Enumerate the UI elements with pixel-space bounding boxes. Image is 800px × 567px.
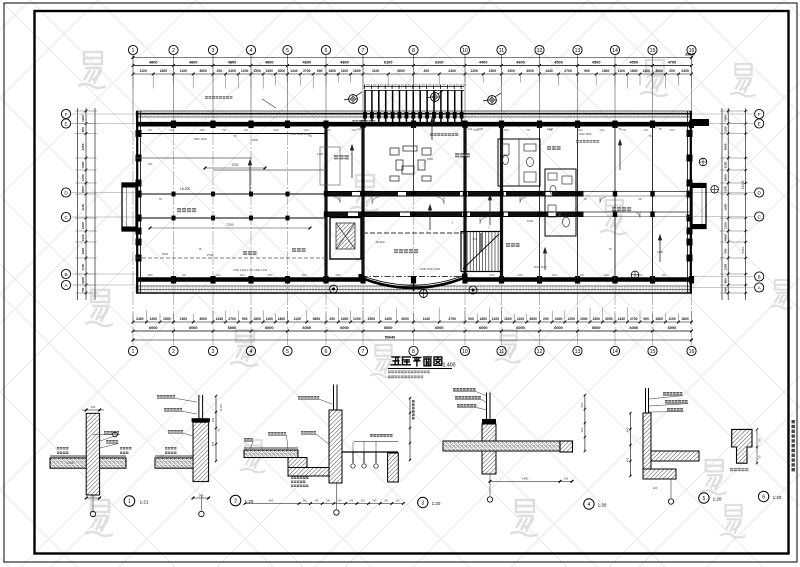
svg-text:1100: 1100 xyxy=(372,69,379,73)
right bay window xyxy=(692,184,706,229)
svg-text:6000: 6000 xyxy=(384,326,392,330)
svg-text:1200: 1200 xyxy=(81,115,85,122)
top exterior wall band with windows xyxy=(136,111,692,124)
svg-text:7: 7 xyxy=(362,48,365,54)
scattered interior dimension texts xyxy=(158,127,662,272)
svg-text:1560: 1560 xyxy=(325,129,331,132)
svg-text:1500: 1500 xyxy=(368,317,376,321)
extra interior texts xyxy=(148,127,664,257)
svg-text:750: 750 xyxy=(622,129,627,132)
svg-text:1100: 1100 xyxy=(81,204,85,211)
svg-text:3000: 3000 xyxy=(526,69,534,73)
detail 3 labels xyxy=(298,396,319,399)
svg-text:50640: 50640 xyxy=(385,336,396,340)
svg-text:1100: 1100 xyxy=(293,317,300,321)
svg-text:900: 900 xyxy=(580,274,585,277)
svg-text:2400: 2400 xyxy=(341,317,349,321)
svg-text:200: 200 xyxy=(216,69,222,73)
svg-text:1440: 1440 xyxy=(303,129,309,132)
detail 2 right dim line xyxy=(215,396,217,461)
svg-text:18.200: 18.200 xyxy=(375,240,385,244)
svg-text:4800: 4800 xyxy=(228,61,236,65)
svg-text:2450: 2450 xyxy=(81,143,85,150)
svg-text:1150: 1150 xyxy=(81,264,85,271)
detail 3 railing xyxy=(342,442,398,464)
svg-text:750: 750 xyxy=(548,129,553,132)
svg-text:7: 7 xyxy=(362,349,365,355)
detail 4 designation xyxy=(584,499,594,509)
detail 3: roof edge with railing xyxy=(244,385,342,484)
interior vertical walls center block xyxy=(324,127,327,280)
svg-text:240: 240 xyxy=(468,127,473,131)
svg-text:1200: 1200 xyxy=(169,129,175,132)
svg-text:7200: 7200 xyxy=(724,115,728,122)
svg-text:1100: 1100 xyxy=(668,317,675,321)
svg-text:1500: 1500 xyxy=(489,69,497,73)
svg-text:1300: 1300 xyxy=(384,317,392,321)
svg-text:7200: 7200 xyxy=(226,223,233,227)
detail 1 top dim xyxy=(85,409,88,412)
svg-text:6: 6 xyxy=(325,48,328,54)
svg-text:1: 1 xyxy=(132,48,135,54)
svg-text:6100: 6100 xyxy=(384,61,392,65)
svg-text:2400: 2400 xyxy=(448,69,456,73)
left bay window xyxy=(122,183,136,231)
svg-text:2400: 2400 xyxy=(681,69,689,73)
bathroom cluster B xyxy=(545,169,576,236)
svg-text:60: 60 xyxy=(758,438,762,442)
svg-text:4500: 4500 xyxy=(554,61,562,65)
main vertical grid lines through plan xyxy=(133,111,692,345)
svg-text:3600: 3600 xyxy=(397,69,405,73)
svg-text:2700: 2700 xyxy=(303,69,311,73)
detail 5: gutter section xyxy=(643,388,699,479)
svg-text:600: 600 xyxy=(580,402,584,407)
svg-text:1100: 1100 xyxy=(618,69,625,73)
svg-text:3000: 3000 xyxy=(278,69,286,73)
room label huiketing right xyxy=(455,153,470,157)
svg-text:2700: 2700 xyxy=(564,69,572,73)
svg-text:6000: 6000 xyxy=(479,326,487,330)
svg-text:1440: 1440 xyxy=(637,274,643,277)
svg-text:1300: 1300 xyxy=(180,317,188,321)
svg-text:10: 10 xyxy=(462,48,468,54)
svg-text:240: 240 xyxy=(358,127,363,131)
svg-text:1150: 1150 xyxy=(724,126,728,133)
detail 4 right dim xyxy=(584,395,586,451)
svg-text:12: 12 xyxy=(537,349,543,355)
svg-text:1100: 1100 xyxy=(517,317,524,321)
svg-text:E: E xyxy=(758,121,761,126)
detail 5 left dim xyxy=(629,413,631,476)
svg-text:14: 14 xyxy=(612,349,618,355)
svg-text:1440: 1440 xyxy=(423,317,431,321)
bottom center curved canopy xyxy=(359,274,468,292)
svg-text:700: 700 xyxy=(81,287,85,292)
door swing arcs xyxy=(334,197,640,224)
canopy end markers xyxy=(330,285,338,293)
svg-text:3000: 3000 xyxy=(199,317,207,321)
svg-text:6000: 6000 xyxy=(265,326,273,330)
svg-text:1440: 1440 xyxy=(599,129,605,132)
svg-text:1100: 1100 xyxy=(643,69,650,73)
detail 4 pipe labels xyxy=(453,388,476,391)
svg-text:2400: 2400 xyxy=(228,69,236,73)
svg-text:1800 1500 1800: 1800 1500 1800 xyxy=(420,267,441,271)
svg-text:1800: 1800 xyxy=(630,69,638,73)
svg-text:18.200: 18.200 xyxy=(220,404,223,412)
svg-text:6000: 6000 xyxy=(149,326,157,330)
entrance porch colonnade xyxy=(363,85,467,125)
svg-text:1300: 1300 xyxy=(507,69,515,73)
internal leader texts xyxy=(205,96,232,99)
svg-text:2200: 2200 xyxy=(231,163,238,167)
left dimension lines xyxy=(77,108,79,300)
svg-text:1200: 1200 xyxy=(567,317,575,321)
svg-text:78: 78 xyxy=(158,132,162,136)
svg-text:950: 950 xyxy=(724,278,728,283)
svg-text:1600: 1600 xyxy=(81,247,85,254)
svg-text:1560: 1560 xyxy=(503,129,509,132)
svg-text:1150: 1150 xyxy=(724,222,728,229)
right callout markers xyxy=(699,158,707,166)
svg-text:4400: 4400 xyxy=(724,234,728,241)
bottom grid bubbles xyxy=(128,346,696,355)
internal dimensions left roof xyxy=(150,168,310,228)
svg-text:15: 15 xyxy=(650,48,656,54)
svg-text:4600: 4600 xyxy=(516,61,524,65)
detail 2 designation xyxy=(230,495,241,506)
svg-text:1:21: 1:21 xyxy=(140,500,149,505)
svg-text:120: 120 xyxy=(653,486,658,490)
svg-text:700: 700 xyxy=(724,248,728,253)
svg-text:1560: 1560 xyxy=(199,129,205,132)
svg-text:1600: 1600 xyxy=(724,203,728,210)
svg-text:900: 900 xyxy=(242,317,248,321)
detail 5 pipe labels xyxy=(663,392,682,395)
svg-text:1200: 1200 xyxy=(517,274,523,277)
svg-text:4800: 4800 xyxy=(265,61,273,65)
svg-text:1100: 1100 xyxy=(724,186,728,193)
svg-text:B: B xyxy=(758,274,761,279)
svg-text:1:400: 1:400 xyxy=(443,363,456,369)
svg-text:1300: 1300 xyxy=(592,317,600,321)
elevator shaft xyxy=(330,218,361,260)
svg-text:5410: 5410 xyxy=(741,246,745,253)
svg-text:14: 14 xyxy=(612,48,618,54)
interior vertical partitions right section xyxy=(540,127,653,280)
svg-text:5: 5 xyxy=(286,349,289,355)
svg-text:1100: 1100 xyxy=(317,152,323,156)
top dim extension verticals xyxy=(133,54,692,74)
svg-text:B: B xyxy=(64,272,67,277)
svg-text:4500: 4500 xyxy=(592,61,600,65)
detail 3 corner block xyxy=(388,453,399,482)
svg-text:1100: 1100 xyxy=(266,317,273,321)
detail 1 ref circle leader xyxy=(93,434,112,436)
svg-text:↑: ↑ xyxy=(488,225,491,231)
svg-text:4400: 4400 xyxy=(81,277,85,284)
detail 6: coping cap section xyxy=(732,429,752,463)
svg-text:1100: 1100 xyxy=(492,317,499,321)
svg-text:900: 900 xyxy=(211,417,215,422)
svg-text:50: 50 xyxy=(758,455,762,459)
staircase xyxy=(461,232,501,272)
svg-text:3600: 3600 xyxy=(529,317,537,321)
svg-text:1200: 1200 xyxy=(353,317,361,321)
svg-text:4400: 4400 xyxy=(479,61,487,65)
svg-text:1440: 1440 xyxy=(290,69,298,73)
svg-text:78: 78 xyxy=(158,197,162,201)
svg-text:1100: 1100 xyxy=(81,234,85,241)
detail 4: balcony slab section xyxy=(443,393,573,475)
svg-text:6200: 6200 xyxy=(435,61,443,65)
svg-text:3600: 3600 xyxy=(313,317,321,321)
watermark glyphs xyxy=(78,52,106,88)
top wall column blobs xyxy=(171,121,694,129)
svg-text:1200: 1200 xyxy=(470,69,478,73)
svg-text:1:20: 1:20 xyxy=(773,495,782,500)
interior direction arrows xyxy=(0,0,1,1)
top grid bubbles and leaders xyxy=(128,45,696,111)
svg-text:78: 78 xyxy=(658,127,662,131)
svg-text:2400: 2400 xyxy=(136,317,144,321)
svg-text:2700: 2700 xyxy=(630,317,638,321)
svg-text:3500: 3500 xyxy=(724,143,728,150)
room label shuixiang xyxy=(292,248,306,252)
svg-text:10: 10 xyxy=(462,349,468,355)
svg-text:900: 900 xyxy=(182,274,187,277)
detail 2 pipe labels xyxy=(157,395,175,398)
svg-text:1460 1440 1760 1300 1440: 1460 1440 1760 1300 1440 xyxy=(233,268,268,272)
svg-text:1800: 1800 xyxy=(681,317,689,321)
bottom exterior wall band with windows xyxy=(136,280,692,294)
svg-text:13: 13 xyxy=(575,48,581,54)
svg-text:1800: 1800 xyxy=(655,317,663,321)
svg-text:1800: 1800 xyxy=(278,317,286,321)
room label roof left xyxy=(177,208,196,212)
svg-text:750: 750 xyxy=(222,129,227,132)
svg-text:1500: 1500 xyxy=(253,69,261,73)
svg-text:4800: 4800 xyxy=(303,61,311,65)
detail 4 bottom xyxy=(489,474,491,496)
svg-text:450: 450 xyxy=(626,427,630,432)
svg-text:200: 200 xyxy=(329,317,335,321)
svg-text:13: 13 xyxy=(575,349,581,355)
svg-text:1300: 1300 xyxy=(265,69,273,73)
svg-text:1500: 1500 xyxy=(580,317,588,321)
detail 3 bottom dim xyxy=(245,503,403,505)
svg-text:1440 1560: 1440 1560 xyxy=(578,132,592,136)
svg-text:1500: 1500 xyxy=(527,219,534,223)
svg-text:1:20: 1:20 xyxy=(713,497,722,502)
svg-text:2700: 2700 xyxy=(228,317,236,321)
svg-text:3600: 3600 xyxy=(199,69,207,73)
svg-text:6000: 6000 xyxy=(516,326,524,330)
svg-text:1100: 1100 xyxy=(139,69,146,73)
top dimension line row 2 (subdivisions) xyxy=(133,73,692,75)
left exterior wall xyxy=(136,111,142,293)
detail 3 designation xyxy=(418,497,428,507)
svg-text:78: 78 xyxy=(583,197,587,201)
svg-text:4800: 4800 xyxy=(149,61,157,65)
svg-text:1800: 1800 xyxy=(427,157,434,161)
svg-text:1800: 1800 xyxy=(602,69,610,73)
svg-text:1560: 1560 xyxy=(335,274,341,277)
svg-text:450: 450 xyxy=(211,441,215,446)
svg-text:6: 6 xyxy=(762,495,765,501)
room label xiuxishi bottom-left xyxy=(243,251,257,255)
svg-text:1560: 1560 xyxy=(273,129,279,132)
room label activity room xyxy=(394,249,418,253)
svg-text:3: 3 xyxy=(421,501,424,507)
svg-text:3: 3 xyxy=(212,349,215,355)
furniture in reception rooms xyxy=(390,146,431,181)
svg-text:1460: 1460 xyxy=(522,477,529,481)
svg-text:1:2.08: 1:2.08 xyxy=(67,462,74,465)
svg-text:450: 450 xyxy=(626,457,630,462)
svg-text:7200: 7200 xyxy=(81,161,85,168)
svg-text:F: F xyxy=(65,112,68,117)
room label huiketing left xyxy=(334,155,349,159)
left axis bubbles xyxy=(61,109,70,118)
svg-text:1200: 1200 xyxy=(241,69,249,73)
svg-text:1440: 1440 xyxy=(669,129,675,132)
svg-text:2: 2 xyxy=(172,349,175,355)
svg-text:8: 8 xyxy=(412,48,415,54)
svg-text:78: 78 xyxy=(198,247,202,251)
svg-text:4: 4 xyxy=(588,502,591,508)
detail 2: parapet rail section xyxy=(155,395,210,482)
svg-text:12: 12 xyxy=(537,48,543,54)
svg-text:2700: 2700 xyxy=(448,317,456,321)
detail 3 right vertical dim xyxy=(409,398,411,460)
right annex stub xyxy=(692,119,709,126)
svg-text:1800: 1800 xyxy=(328,69,336,73)
svg-text:1100: 1100 xyxy=(724,162,728,169)
svg-text:4500: 4500 xyxy=(630,61,638,65)
bathroom cluster A xyxy=(498,139,540,186)
svg-text:14440: 14440 xyxy=(741,180,745,189)
svg-text:1800: 1800 xyxy=(479,317,487,321)
interior column blobs at intersections xyxy=(172,191,655,221)
svg-text:1: 1 xyxy=(128,499,131,505)
canopy axis bubble xyxy=(420,290,428,298)
bottom dimension rows xyxy=(133,321,692,323)
detail 5 designation xyxy=(699,493,709,503)
detail 1 designation xyxy=(124,496,135,507)
svg-text:1560: 1560 xyxy=(473,129,479,132)
svg-text:900: 900 xyxy=(584,69,590,73)
detail 6 designation xyxy=(758,491,768,501)
svg-text:6000: 6000 xyxy=(592,326,600,330)
svg-text:1150: 1150 xyxy=(81,174,85,181)
svg-text:1800: 1800 xyxy=(353,69,361,73)
svg-text:1560: 1560 xyxy=(147,274,153,277)
svg-text:6000: 6000 xyxy=(189,326,197,330)
svg-text:4800: 4800 xyxy=(189,61,197,65)
svg-text:1500: 1500 xyxy=(163,317,171,321)
svg-text:1440: 1440 xyxy=(617,317,625,321)
svg-text:3000: 3000 xyxy=(401,317,409,321)
svg-text:1:20: 1:20 xyxy=(432,501,441,506)
room label roof right xyxy=(612,207,631,211)
svg-text:4700: 4700 xyxy=(668,61,676,65)
top overall total dimension xyxy=(133,57,692,59)
svg-text:6000: 6000 xyxy=(303,326,311,330)
detail 5 bottom xyxy=(670,479,672,498)
detail 1 bottom dim xyxy=(86,497,99,499)
svg-text:240: 240 xyxy=(91,405,96,409)
svg-text:1560 1440 1560: 1560 1440 1560 xyxy=(290,132,311,136)
svg-text:900: 900 xyxy=(662,274,667,277)
bottom wall column blobs xyxy=(171,276,694,284)
svg-text:11: 11 xyxy=(499,48,504,54)
svg-text:200: 200 xyxy=(543,317,549,321)
svg-text:6000: 6000 xyxy=(435,326,443,330)
svg-text:1200: 1200 xyxy=(351,129,357,132)
svg-text:950: 950 xyxy=(81,127,85,132)
svg-text:78: 78 xyxy=(608,247,612,251)
svg-text:6: 6 xyxy=(325,349,328,355)
svg-text:900: 900 xyxy=(244,129,249,132)
title underline xyxy=(388,368,452,370)
svg-text:1200: 1200 xyxy=(724,263,728,270)
svg-text:1200: 1200 xyxy=(149,317,157,321)
svg-text:2: 2 xyxy=(234,499,237,505)
svg-text:6000: 6000 xyxy=(554,326,562,330)
detail 1 leader labels xyxy=(104,431,119,434)
svg-text:18.200: 18.200 xyxy=(180,187,190,191)
detail 6 dims xyxy=(756,429,758,447)
svg-text:1800: 1800 xyxy=(253,317,261,321)
svg-text:1560: 1560 xyxy=(267,274,273,277)
svg-text:900: 900 xyxy=(644,129,649,132)
corridor wall upper xyxy=(326,191,584,196)
svg-text:F: F xyxy=(758,112,761,117)
svg-text:3500: 3500 xyxy=(81,186,85,193)
svg-text:3600: 3600 xyxy=(655,69,663,73)
svg-text:4: 4 xyxy=(250,48,253,54)
svg-text:1440: 1440 xyxy=(216,317,224,321)
svg-text:700: 700 xyxy=(148,162,153,166)
svg-text:2: 2 xyxy=(172,48,175,54)
title: five-storey plan (stroke-drawn hanzi) xyxy=(391,357,401,365)
svg-text:1440: 1440 xyxy=(603,274,609,277)
svg-text:28: 28 xyxy=(638,197,642,201)
svg-text:3: 3 xyxy=(212,48,215,54)
svg-text:1560: 1560 xyxy=(301,274,307,277)
svg-text:200: 200 xyxy=(424,69,430,73)
svg-text:300: 300 xyxy=(580,427,584,432)
svg-text:900: 900 xyxy=(148,129,153,132)
svg-text:2700: 2700 xyxy=(207,253,214,257)
svg-text:E: E xyxy=(64,121,67,126)
micro text row under top band xyxy=(147,129,675,277)
title notes xyxy=(388,371,430,374)
right exterior wall xyxy=(687,111,693,293)
svg-text:78: 78 xyxy=(308,134,312,138)
svg-text:4: 4 xyxy=(250,349,253,355)
svg-text:900: 900 xyxy=(468,317,474,321)
svg-text:6000: 6000 xyxy=(630,326,638,330)
svg-text:240: 240 xyxy=(564,477,569,481)
svg-text:6000: 6000 xyxy=(340,326,348,330)
right axis bubbles xyxy=(755,109,764,118)
svg-text:1560 1440: 1560 1440 xyxy=(193,137,207,141)
detail 2 bottom xyxy=(193,497,209,499)
small room partitions near center xyxy=(320,127,465,234)
